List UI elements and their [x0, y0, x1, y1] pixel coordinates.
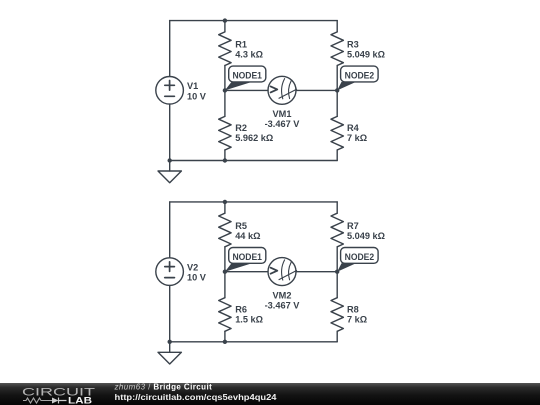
wire: top rail of upper bridge	[170, 20, 338, 22]
CircuitLab logo	[22, 387, 95, 405]
wire: voltmeter VM1 right lead to NODE2	[296, 89, 337, 91]
svg-text:5.049 kΩ: 5.049 kΩ	[347, 50, 385, 60]
wire: NODE1 to voltmeter VM2 left lead	[225, 271, 268, 273]
svg-text:NODE1: NODE1	[232, 71, 262, 81]
footer bar	[0, 383, 540, 405]
junction dot: bottom rail / ground upper	[168, 158, 172, 162]
svg-text:R4: R4	[347, 123, 360, 133]
svg-text:-3.467 V: -3.467 V	[265, 119, 301, 129]
svg-text:NODE2: NODE2	[345, 252, 375, 262]
resistor R4	[331, 90, 343, 160]
svg-text:5.049 kΩ: 5.049 kΩ	[347, 231, 385, 241]
junction dot: top rail / R1	[223, 18, 227, 22]
wire: V2 bottom to lower rail	[169, 285, 171, 341]
svg-text:R1: R1	[235, 40, 247, 50]
svg-text:VM2: VM2	[273, 290, 292, 300]
svg-text:7 kΩ: 7 kΩ	[347, 133, 367, 143]
voltmeter VM1	[268, 76, 297, 104]
svg-text:-3.467 V: -3.467 V	[265, 300, 301, 310]
resistor R7	[331, 202, 343, 272]
junction dot: bottom rail / ground lower	[168, 340, 172, 344]
wire: lower-left vertical to V2 top	[169, 202, 171, 258]
ground (lower circuit)	[158, 342, 181, 364]
node label NODE1 (upper)	[225, 66, 266, 90]
svg-text:R6: R6	[235, 305, 247, 315]
wire: bottom rail of lower bridge	[170, 341, 338, 343]
junction dot: NODE2 upper	[335, 88, 339, 92]
wire: voltmeter VM2 right lead to NODE2	[296, 271, 337, 273]
svg-text:zhum63 / Bridge Circuit: zhum63 / Bridge Circuit	[114, 383, 213, 391]
voltmeter VM2	[268, 258, 297, 286]
svg-text:1.5 kΩ: 1.5 kΩ	[235, 315, 263, 325]
junction dot: NODE1 lower	[223, 270, 227, 274]
node label NODE1 (lower)	[225, 248, 266, 272]
junction dot: bottom rail / R2	[223, 158, 227, 162]
svg-text:http://circuitlab.com/cqs5evhp: http://circuitlab.com/cqs5evhp4qu24	[115, 392, 277, 402]
wire: upper-left vertical to V1 top	[169, 21, 171, 77]
junction dot: NODE2 lower	[335, 270, 339, 274]
ground (upper circuit)	[158, 161, 181, 183]
svg-text:4.3 kΩ: 4.3 kΩ	[235, 50, 263, 60]
junction dot: top rail / R5	[223, 200, 227, 204]
svg-text:NODE1: NODE1	[232, 252, 262, 262]
resistor R8	[331, 272, 343, 342]
junction dot: bottom rail / R6	[223, 340, 227, 344]
svg-text:10 V: 10 V	[187, 273, 207, 283]
node label NODE2 (lower)	[337, 248, 378, 272]
svg-text:10 V: 10 V	[187, 91, 207, 101]
svg-text:V2: V2	[187, 262, 198, 272]
svg-text:R5: R5	[235, 221, 247, 231]
resistor R2	[219, 90, 231, 160]
svg-text:LAB: LAB	[68, 396, 93, 405]
svg-text:44 kΩ: 44 kΩ	[235, 231, 260, 241]
wire: top rail of lower bridge	[170, 201, 338, 203]
wire: bottom rail of upper bridge	[170, 160, 338, 162]
junction dot: NODE1 upper	[223, 88, 227, 92]
svg-text:5.962 kΩ: 5.962 kΩ	[235, 133, 273, 143]
svg-text:7 kΩ: 7 kΩ	[347, 315, 367, 325]
svg-text:VM1: VM1	[273, 109, 292, 119]
svg-text:R2: R2	[235, 123, 247, 133]
wire: V1 bottom to lower rail	[169, 104, 171, 160]
voltage source V2	[156, 258, 184, 286]
svg-text:V1: V1	[187, 81, 198, 91]
wire: NODE1 to voltmeter VM1 left lead	[225, 89, 268, 91]
voltage source V1	[156, 77, 184, 105]
resistor R1	[219, 21, 231, 91]
resistor R3	[331, 21, 343, 91]
svg-text:R8: R8	[347, 305, 359, 315]
svg-text:R7: R7	[347, 221, 359, 231]
node label NODE2 (upper)	[337, 66, 378, 90]
svg-text:R3: R3	[347, 40, 359, 50]
resistor R5	[219, 202, 231, 272]
svg-text:NODE2: NODE2	[345, 71, 375, 81]
resistor R6	[219, 272, 231, 342]
